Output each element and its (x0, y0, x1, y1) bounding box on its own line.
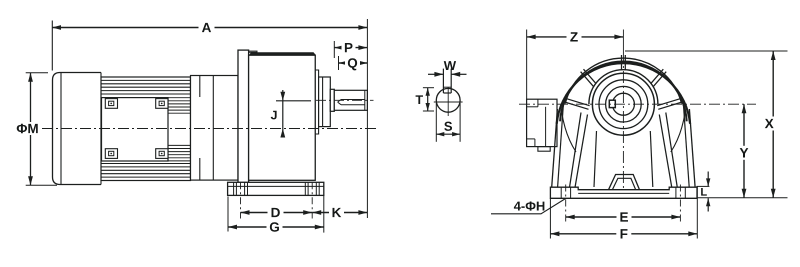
support leg right (666, 113, 678, 188)
hole centerline (565, 185, 567, 223)
bearing boss circles (592, 73, 654, 135)
foot hole right (307, 182, 309, 195)
window inner edge arc (589, 70, 658, 104)
bolt pad (156, 149, 168, 159)
dimension T (423, 87, 434, 89)
foot hole right (675, 187, 677, 198)
vertical centerline (622, 30, 624, 52)
dimension E (566, 216, 681, 218)
output shaft stub (330, 89, 334, 111)
key (442, 69, 444, 93)
hole centerline (679, 185, 681, 223)
shaft axis (316, 99, 374, 101)
base inner line (578, 192, 669, 194)
gearbox housing (249, 55, 316, 180)
dimension Z (526, 30, 528, 100)
bearing retainer plate (319, 77, 331, 127)
dimension Y (743, 104, 745, 198)
drain boss trapezoid (609, 175, 640, 190)
dome inner rim arc (560, 61, 687, 121)
bolt pad (156, 99, 168, 109)
gearbox top cover (249, 52, 316, 55)
dome spokes (624, 55, 626, 70)
shaft bore circle (612, 93, 634, 115)
bolt pad (105, 99, 117, 109)
mounting base plate (228, 182, 324, 195)
flange tab (538, 147, 550, 152)
dome outer rim arc (557, 63, 690, 124)
crosshair (434, 101, 463, 103)
dimension G (227, 197, 229, 232)
rear flange box (527, 99, 557, 146)
dimension J (276, 100, 311, 102)
output shaft (334, 90, 367, 110)
label 4-PhiH (514, 201, 545, 210)
dimension K (312, 212, 367, 214)
shaft keyway (338, 100, 365, 105)
foot hole left (560, 187, 562, 198)
dimension S (435, 103, 437, 142)
dimension PhiM (26, 72, 48, 74)
window outer edge arc (565, 58, 681, 103)
gearbox input flange plate (238, 50, 249, 182)
foot hole left (235, 182, 237, 195)
hole centerline (311, 182, 313, 218)
dimension Q (338, 56, 340, 70)
hole centerline (240, 182, 242, 218)
extension line base bottom (697, 197, 787, 199)
dimension A (51, 21, 53, 71)
shaft cross-section circle (436, 88, 460, 112)
dimension W (428, 73, 443, 75)
extension line shaft end (366, 19, 368, 218)
gusset curve left (562, 111, 577, 152)
gusset curve right (671, 111, 686, 152)
dimension X (625, 50, 788, 52)
motor fin section (101, 77, 191, 181)
dimension L (697, 185, 710, 187)
support leg left (570, 113, 582, 188)
base with feet (550, 187, 697, 198)
motor end cap (53, 73, 102, 185)
keyway square (609, 100, 615, 107)
housing skirt right (689, 109, 695, 187)
motor centerline (42, 128, 378, 130)
dimension D (241, 212, 313, 214)
dimension P (333, 41, 335, 58)
bearing housing step (315, 70, 318, 134)
motor end bell and adapter (191, 76, 239, 181)
boss rib right (650, 131, 653, 187)
housing skirt left (552, 109, 558, 187)
boss rib left (594, 131, 597, 187)
dimension F (549, 198, 551, 238)
motor stator frame (102, 98, 169, 161)
bolt pad (105, 149, 117, 159)
horizontal centerline (519, 103, 756, 105)
